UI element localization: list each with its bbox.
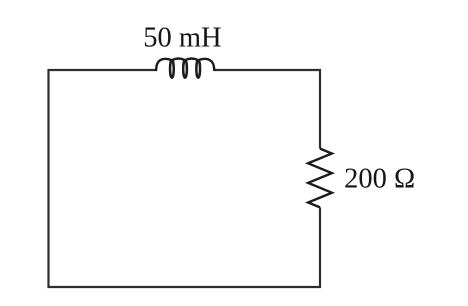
svg-text:50 mH: 50 mH [143, 22, 221, 53]
svg-text:200 Ω: 200 Ω [344, 163, 415, 194]
